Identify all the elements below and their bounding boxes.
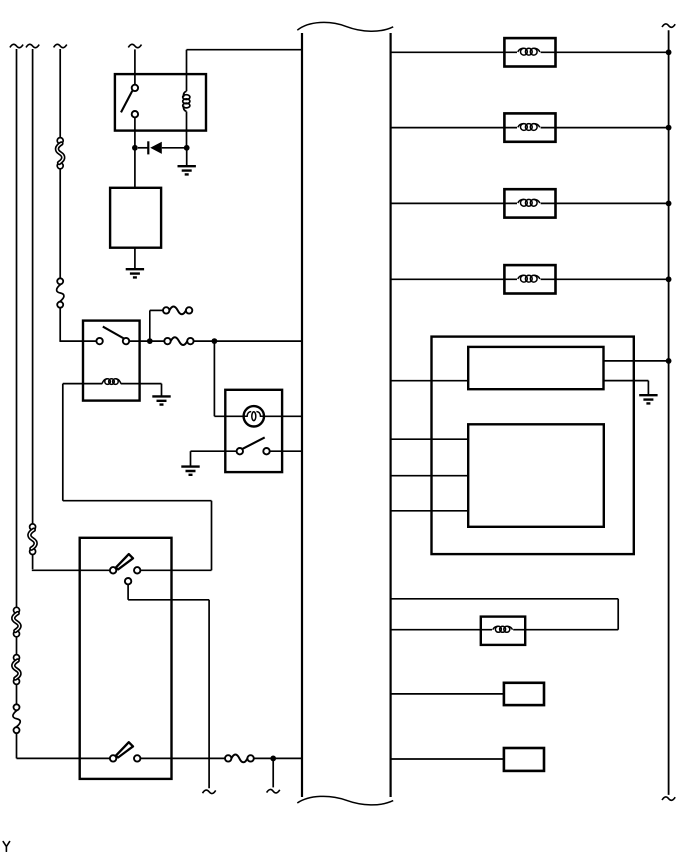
- node junction on right rail (injector 4): [666, 276, 672, 282]
- wire upper module to right rail: [604, 360, 669, 362]
- injector 4 coil: [518, 275, 540, 282]
- wire relay R1 switch to node: [134, 117, 136, 187]
- diode D1: [138, 141, 187, 154]
- wire node D down to lamp: [214, 341, 243, 416]
- wire bus to sensor 1: [391, 693, 504, 695]
- switch S2 contact right: [263, 448, 269, 454]
- relay R2 switch contact right: [123, 338, 129, 344]
- wire feed C horizontal into relay R2: [59, 340, 96, 342]
- right rail wire: [668, 30, 670, 795]
- wire switch S2 to ground G4: [191, 451, 237, 466]
- wire bottom run left: [17, 757, 110, 759]
- connector C2 on feed B: [29, 524, 35, 555]
- break symbol top of feed A: [10, 44, 23, 47]
- wire injector 1 to right rail: [541, 51, 669, 53]
- wire fuse F2 to bus: [194, 340, 302, 342]
- fuse F1 open: [163, 307, 192, 315]
- node E junction: [270, 756, 276, 762]
- wire bus to sensor 2: [391, 758, 504, 760]
- wire bus to injector 4: [391, 278, 517, 280]
- switch S3 lever: [116, 554, 133, 569]
- injector 3 box: [504, 189, 555, 217]
- switch S2 contact left: [237, 448, 243, 454]
- relay R2 switch blade: [103, 327, 124, 339]
- combination switch box: [80, 538, 172, 779]
- wire feed B vertical (x=32.6): [32, 49, 34, 569]
- relay R2 switch contact left: [96, 338, 102, 344]
- injector 4 box: [504, 265, 555, 293]
- connector C1 on feed C: [57, 138, 63, 169]
- wire into relay R1 switch: [134, 49, 136, 84]
- node A junction: [132, 145, 138, 151]
- break symbol top of right rail: [662, 24, 675, 27]
- wire switch S3 lower contact: [128, 584, 209, 788]
- connector C4 on feed A: [13, 655, 19, 685]
- connector C6 on feed C: [57, 278, 64, 307]
- wire switch S2 to bus: [270, 450, 302, 452]
- lamp unit box: [225, 390, 282, 472]
- wire injector 3 to right rail: [541, 202, 669, 204]
- relay R1 coil: [183, 50, 190, 148]
- harness bus torn top edge: [297, 22, 393, 31]
- wire module M1 to ground G2: [134, 248, 136, 270]
- relay R1 box: [115, 74, 206, 131]
- wire switch S3 output: [140, 569, 211, 571]
- wire bus to injector 3: [391, 202, 517, 204]
- wire relay R2 coil right to ground: [140, 384, 162, 397]
- wire lamp to bus: [264, 415, 302, 417]
- wire bottom run right: [140, 757, 225, 759]
- wire relay R1 coil to bus: [187, 49, 303, 51]
- wire injector 4 to right rail: [541, 278, 669, 280]
- wire bus to upper module: [391, 380, 469, 382]
- ground G1: [178, 166, 196, 174]
- injector 2 box: [504, 113, 555, 141]
- node junction on right rail (injector 1): [666, 49, 672, 55]
- wire bus to injector 2: [391, 127, 517, 129]
- wire bus to lower module 2: [391, 475, 469, 477]
- relay R1 switch contact top: [132, 85, 138, 91]
- harness bus right edge: [390, 33, 392, 797]
- wire resistor loop top: [391, 599, 619, 630]
- switch S4 lever: [116, 742, 133, 757]
- control unit upper module box: [468, 347, 603, 389]
- break symbol bottom of right rail: [662, 797, 675, 800]
- control unit outer box: [432, 337, 634, 554]
- switch S4 contact right: [134, 755, 140, 761]
- injector 2 coil: [518, 124, 540, 131]
- ground G3: [152, 396, 170, 404]
- module M1 box: [110, 188, 161, 248]
- sensor 2 box: [504, 748, 544, 771]
- wire relay R2 coil left loop: [63, 384, 212, 571]
- relay R2 coil: [83, 379, 140, 385]
- ground G5: [639, 395, 657, 403]
- break symbol below node E: [267, 789, 280, 792]
- break symbol top of feed B: [26, 44, 39, 47]
- wire feed B horizontal to switch S3: [32, 569, 110, 571]
- wire node E stub down: [272, 758, 274, 787]
- fuse F2 inline: [164, 337, 193, 345]
- fuse F3 inline: [225, 755, 254, 763]
- node junction on right rail (injector 3): [666, 201, 672, 207]
- switch S3 contact lower: [125, 578, 131, 584]
- resistor box: [481, 617, 525, 645]
- injector 1 box: [504, 38, 555, 66]
- harness bus torn bottom edge: [297, 796, 393, 805]
- relay R1 switch contact bottom: [132, 111, 138, 117]
- node B junction: [184, 145, 190, 151]
- wire relay R2 switch output: [129, 340, 164, 342]
- harness bus left edge: [301, 33, 303, 797]
- break symbol above relay R1 switch: [128, 44, 141, 47]
- node C junction: [147, 338, 153, 344]
- wire bus to lower module 3: [391, 510, 469, 512]
- switch S3 contact left: [110, 567, 116, 573]
- switch S3 contact right: [134, 567, 140, 573]
- wire feed C vertical (x=60.2): [59, 49, 61, 341]
- injector 1 coil: [518, 48, 540, 55]
- node F junction: [666, 358, 672, 364]
- wire branch up to fuse F1: [150, 310, 163, 339]
- wire to ground G1: [186, 148, 188, 166]
- connector C5 on feed A: [13, 704, 20, 733]
- switch S2 blade: [242, 437, 264, 449]
- wire feed A vertical (x=16.5): [16, 49, 18, 758]
- wire upper module to ground G5: [604, 381, 649, 396]
- ground G2: [126, 269, 144, 277]
- node D junction: [212, 338, 218, 344]
- resistor coil: [493, 626, 513, 632]
- ground G4: [181, 467, 199, 475]
- wire injector 2 to right rail: [541, 127, 669, 129]
- connector C3 on feed A: [13, 607, 19, 637]
- wire fuse F3 to bus: [254, 757, 302, 759]
- control unit lower module box: [468, 424, 604, 527]
- break symbol below wire (x=209): [203, 790, 216, 793]
- node junction on right rail (injector 2): [666, 125, 672, 131]
- relay R1 switch blade: [121, 91, 132, 113]
- label Y: [3, 842, 9, 852]
- sensor 1 box: [504, 683, 544, 705]
- wire resistor loop bottom: [391, 629, 619, 631]
- wire bus to lower module 1: [391, 438, 469, 440]
- relay R2 box: [83, 321, 140, 401]
- wire bus to injector 1: [391, 51, 517, 53]
- break symbol top of feed C: [54, 44, 67, 47]
- injector 3 coil: [518, 199, 540, 206]
- switch S4 contact left: [110, 755, 116, 761]
- lamp L1: [244, 406, 264, 426]
